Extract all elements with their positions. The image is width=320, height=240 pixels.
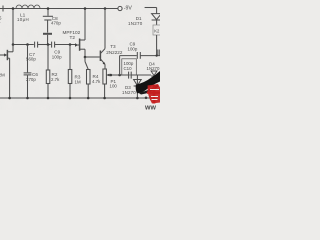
watermark black swoosh <box>136 71 160 93</box>
svg-text:-9V: -9V <box>124 6 133 12</box>
node junction source <box>84 56 87 59</box>
node junction rail T1 <box>8 97 11 100</box>
svg-text:270p: 270p <box>26 77 36 82</box>
node junction detector drop <box>118 74 121 77</box>
transistor T3 2N2222 <box>100 9 105 70</box>
capacitor C11 output <box>129 72 151 79</box>
svg-text:1N270: 1N270 <box>128 21 143 26</box>
svg-text:1M: 1M <box>75 79 81 84</box>
terminal -9V <box>118 6 122 10</box>
wire left drop from rail <box>12 9 14 45</box>
svg-text:2.7k: 2.7k <box>51 77 60 82</box>
resistor R2 <box>46 45 50 99</box>
wire output bus y75 <box>110 74 128 76</box>
svg-text:C10: C10 <box>124 66 133 71</box>
node junction rail C6 <box>26 97 29 100</box>
capacitor C7 <box>35 42 51 48</box>
svg-text:1N270: 1N270 <box>122 90 136 95</box>
svg-text:10μH: 10μH <box>17 17 29 22</box>
node junction R2 tap <box>47 43 50 46</box>
node junction R3 tap <box>69 43 72 46</box>
node junction C8 top <box>47 7 50 10</box>
watermark seal white strokes <box>150 90 159 100</box>
capacitor cut at right edge <box>157 50 159 56</box>
capacitor C9 right <box>137 52 160 59</box>
svg-text:T2: T2 <box>70 35 76 40</box>
diode D3 branch <box>134 75 142 98</box>
node junction rail R4 <box>87 97 90 100</box>
svg-text:4.7k: 4.7k <box>92 79 101 84</box>
svg-text:2M: 2M <box>0 73 5 78</box>
node junction wire-left <box>12 43 15 46</box>
potentiometer P1 <box>103 69 111 98</box>
wire gate bus y44.5 <box>13 44 34 46</box>
wire detector bus y55.6 <box>120 55 137 57</box>
node junction rail P1 <box>103 97 106 100</box>
node stub left edge <box>2 6 4 12</box>
capacitor C9 series <box>52 42 76 48</box>
node junction C6 tap <box>26 43 29 46</box>
watermark red seal <box>147 84 160 104</box>
node junction T2 drain <box>84 7 87 10</box>
resistor K2 <box>153 25 161 35</box>
capacitor C6 <box>24 45 32 99</box>
diode D1 <box>145 8 162 26</box>
wire detector vertical <box>119 56 121 75</box>
node junction L1 left <box>12 7 15 10</box>
node junction rail D3 <box>136 97 139 100</box>
svg-text:100p: 100p <box>52 54 62 59</box>
transistor T1 <box>0 45 13 99</box>
watermark swoosh tail <box>138 85 159 95</box>
node junction wiper <box>110 74 113 77</box>
svg-text:K2: K2 <box>154 28 160 33</box>
wire T2 source to T3 base <box>85 56 100 58</box>
svg-text:560p: 560p <box>26 57 36 62</box>
resistor R4 <box>85 57 90 98</box>
svg-text:T3: T3 <box>110 44 116 49</box>
wire bottom ground rail <box>0 97 152 99</box>
svg-text:470p: 470p <box>51 21 61 26</box>
node junction rail R2 <box>47 97 50 100</box>
svg-text:1N270: 1N270 <box>147 66 160 71</box>
diode D4 symbol <box>151 71 157 76</box>
node junction rail watermark <box>145 97 148 100</box>
node junction T3 collector rail <box>104 7 107 10</box>
node junction K2 bottom <box>156 55 158 57</box>
paper background <box>0 0 160 110</box>
node junction rail R3 <box>69 97 72 100</box>
box C10 label frame <box>122 59 137 75</box>
svg-text:ww: ww <box>144 105 156 111</box>
inductor L1 <box>16 5 40 9</box>
transistor T2 MPF102 <box>75 9 85 58</box>
svg-text:2N2222: 2N2222 <box>106 50 123 55</box>
resistor R3 <box>68 45 72 99</box>
wire top supply rail <box>0 8 118 10</box>
svg-text:100: 100 <box>110 84 118 89</box>
svg-text:100p: 100p <box>128 47 138 52</box>
capacitor C8 <box>43 9 53 45</box>
